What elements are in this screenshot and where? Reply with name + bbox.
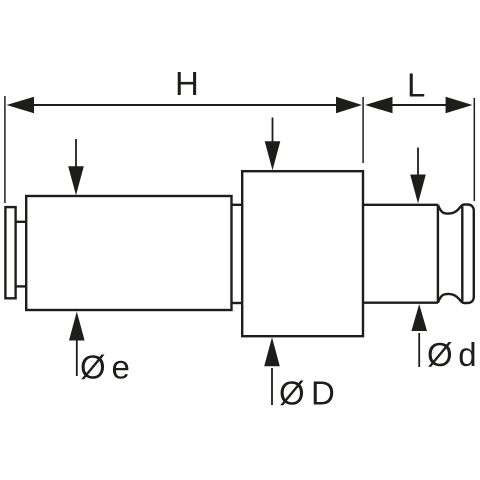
middle block rectangle	[242, 171, 363, 336]
arrowhead up from cylinder bottom	[411, 304, 427, 331]
wire: cylinder end face	[437, 205, 439, 303]
dimension line H	[30, 104, 338, 106]
end cap outer profile with waves (tulip bead)	[438, 205, 474, 304]
svg-text:L: L	[407, 67, 425, 104]
arrowhead down to block top	[265, 141, 281, 170]
wire: cylinder top edge	[363, 204, 438, 206]
arrowhead H left	[7, 97, 35, 113]
wire: cylinder bottom edge	[363, 302, 438, 304]
extension line middle (H/L shared datum)	[362, 97, 364, 163]
extension line left (H datum)	[4, 96, 6, 203]
arrowhead L right	[446, 97, 473, 113]
wire: body-block neck bottom	[232, 302, 243, 304]
arrowhead H right	[336, 97, 362, 113]
arrowhead down to body top	[68, 166, 84, 195]
wire: shaft of down arrow to cylinder top	[417, 148, 419, 181]
end cap left chord	[461, 206, 463, 301]
wire: shaft of up arrow from block bottom (Ø D)	[271, 368, 273, 405]
wire: shaft of down arrow to block top	[272, 118, 274, 148]
extension line right (L datum)	[473, 98, 475, 201]
dimension line L	[390, 104, 448, 106]
arrowhead up from block bottom	[264, 337, 280, 366]
svg-text:H: H	[175, 65, 199, 102]
svg-text:Øe: Øe	[80, 349, 130, 386]
svg-text:Ød: Ød	[427, 336, 477, 373]
wire: tab neck top	[16, 221, 27, 223]
arrowhead down to cylinder top	[410, 175, 426, 204]
wire: shaft of up arrow from cylinder bottom (Ø d)	[418, 333, 420, 367]
main body rectangle	[26, 196, 231, 310]
wire: shaft of up arrow from body bottom (Ø e)	[76, 340, 78, 376]
wire: body-block neck top	[232, 204, 243, 206]
arrowhead L left	[365, 97, 393, 113]
arrowhead up from body bottom	[69, 312, 85, 341]
left tab (thread stub)	[5, 207, 15, 298]
wire: tab neck bottom	[16, 285, 27, 287]
wire: shaft of down arrow to body top	[75, 139, 77, 172]
